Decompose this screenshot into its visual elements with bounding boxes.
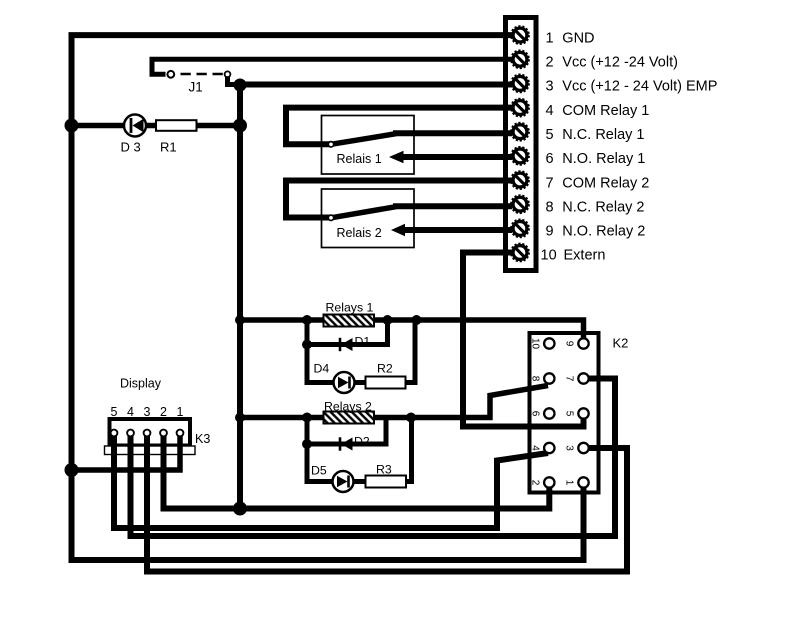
wire D3 R1 row [72, 123, 241, 129]
relay coil 2 (Relays 2) [324, 412, 375, 424]
node coil 2 rail left [235, 413, 245, 423]
wire D5 R3 branch [307, 418, 412, 482]
terminal screw 5 [511, 123, 529, 141]
svg-text:Relais 1: Relais 1 [337, 152, 382, 166]
svg-text:3: 3 [564, 445, 575, 451]
jumper J1 left circle [167, 71, 174, 78]
relay 2 switch blade [331, 207, 396, 218]
svg-text:K2: K2 [613, 336, 629, 351]
wire diode D1 branch [307, 317, 388, 345]
diode D3 [124, 115, 146, 137]
display connector K3 base strip [105, 446, 196, 455]
svg-text:D4: D4 [314, 362, 330, 376]
display pin 4 circle [127, 430, 134, 437]
svg-text:5: 5 [546, 127, 554, 143]
svg-text:9: 9 [564, 341, 575, 347]
display connector K3 body [110, 419, 191, 446]
svg-text:Relais 2: Relais 2 [337, 226, 382, 240]
wire terminal 2 to jumper J1 left [152, 59, 512, 74]
svg-text:R1: R1 [160, 140, 177, 155]
K2 pin 6 [544, 408, 554, 418]
svg-text:1: 1 [546, 30, 554, 46]
wire terminal 6 to relay 1 N.O. arrow [401, 154, 512, 160]
K2 pin numbers [530, 338, 575, 486]
wire K2 pin 4 to display pin 5 [114, 435, 548, 528]
relay coil 1 (Relays 1) [324, 315, 375, 327]
svg-text:GND: GND [562, 30, 594, 46]
terminal labels [541, 30, 718, 263]
wire K2 pin 7 to display pin 4 [131, 379, 616, 537]
wire terminal 10 Extern to K2 pin 5 [463, 253, 584, 427]
resistor R2 [366, 377, 406, 389]
svg-text:R3: R3 [376, 463, 392, 477]
terminal screw 7 [511, 171, 529, 189]
K2 pin 2 [544, 477, 554, 487]
svg-text:R2: R2 [377, 362, 393, 376]
svg-text:N.O. Relay 2: N.O. Relay 2 [562, 224, 645, 240]
svg-text:1: 1 [177, 405, 184, 419]
svg-text:8: 8 [546, 199, 554, 215]
relay 2 pivot [328, 215, 333, 220]
svg-text:4: 4 [530, 445, 541, 451]
display pin numbers [111, 405, 184, 419]
wire J1 right stub [228, 75, 239, 85]
wire display pin 1 to GND rail [72, 435, 181, 470]
svg-text:2: 2 [160, 405, 167, 419]
terminal screw 1 [511, 26, 529, 44]
connector K2 body [530, 333, 599, 493]
terminal screw 3 [511, 75, 529, 93]
K2 pin 9 [578, 338, 588, 348]
resistor R3 [366, 476, 407, 488]
display pin 5 circle [111, 430, 118, 437]
resistor R1 [156, 120, 197, 131]
diode D1 [340, 338, 353, 351]
LED D5 [333, 471, 354, 492]
node D1 / D4 branch [302, 340, 312, 350]
svg-text:4: 4 [546, 103, 554, 119]
svg-text:4: 4 [127, 405, 134, 419]
wire relay coil 1 rail to K2 pin 9 [240, 320, 584, 340]
display pin 2 circle [160, 430, 167, 437]
wire D4 R2 branch [307, 318, 415, 383]
node coil 1 / D1 branch top [302, 315, 312, 325]
node R3 riser top [406, 413, 416, 423]
node coil 1 rail left [235, 315, 245, 325]
svg-text:7: 7 [546, 175, 554, 191]
relay 1 switch blade [331, 134, 396, 145]
svg-text:D 3: D 3 [121, 140, 141, 155]
relay 2 box [322, 189, 415, 248]
node left rail / D3 row [65, 119, 79, 133]
K2 pin 10 [544, 338, 554, 348]
wire diode D2 branch [307, 418, 386, 445]
arrow relay 1 N.O. [389, 151, 404, 163]
K2 pin 3 [578, 443, 588, 453]
wire GND net: terminal 1 to left rail, bottom rail to K2 pin 1 [72, 35, 584, 560]
svg-text:COM Relay 2: COM Relay 2 [562, 175, 649, 191]
wire terminal 4 to relay 1 common [286, 108, 512, 145]
jumper J1 right circle [225, 71, 231, 77]
svg-text:2: 2 [530, 480, 541, 486]
terminal screw 10 [511, 244, 529, 262]
svg-text:J1: J1 [189, 80, 203, 95]
svg-text:Display: Display [120, 377, 162, 391]
svg-text:9: 9 [546, 224, 554, 240]
K2 pin 5 [578, 408, 588, 418]
LED D4 [334, 372, 355, 393]
node left rail / display pin 1 [65, 463, 79, 477]
terminal screw 2 [511, 50, 529, 68]
svg-text:10: 10 [541, 248, 557, 264]
svg-text:COM Relay 1: COM Relay 1 [562, 103, 649, 119]
arrow relay 2 N.O. [391, 224, 405, 236]
svg-text:D2: D2 [354, 435, 370, 449]
wire terminal 7 to relay 2 common [286, 181, 512, 218]
node center rail / D3 row [233, 119, 247, 133]
display pin circles [111, 430, 184, 437]
svg-text:5: 5 [564, 411, 575, 417]
svg-text:K3: K3 [195, 432, 210, 446]
wire terminal 8 to relay 2 N.C. contact [393, 203, 512, 209]
svg-text:N.C. Relay 1: N.C. Relay 1 [562, 127, 644, 143]
svg-text:3: 3 [144, 405, 151, 419]
terminal screw 9 [511, 220, 529, 238]
svg-text:5: 5 [111, 405, 118, 419]
node center rail bottom [233, 502, 247, 516]
wire terminal 5 to relay 1 N.C. contact [393, 130, 512, 136]
wire terminal 3 + center rail [240, 85, 512, 509]
svg-text:1: 1 [564, 480, 575, 486]
svg-text:7: 7 [564, 376, 575, 382]
diode D2 [340, 437, 353, 450]
K2 pin 1 [578, 477, 588, 487]
svg-text:Extern: Extern [564, 248, 606, 264]
svg-text:10: 10 [530, 338, 541, 350]
node J1 / terminal 3 [234, 79, 247, 92]
wire K2 pin 3 to display pin 3 [147, 435, 627, 572]
node coil 2 / D2 branch top [302, 413, 312, 423]
terminal block body [506, 18, 537, 271]
terminal screws 1-10 [511, 26, 529, 261]
svg-text:Relays 2: Relays 2 [324, 400, 372, 414]
svg-text:Relays 1: Relays 1 [326, 301, 374, 315]
K2 pin 7 [578, 373, 588, 383]
terminal screw 8 [511, 195, 529, 213]
display pin 1 circle [177, 430, 184, 437]
svg-text:6: 6 [530, 411, 541, 417]
wire relay coil 2 rail to K2 pin 8 [240, 386, 548, 418]
svg-text:8: 8 [530, 376, 541, 382]
wire terminal 9 to relay 2 N.O. arrow [403, 227, 512, 233]
K2 pin 8 [544, 373, 554, 383]
svg-text:2: 2 [546, 55, 554, 71]
node R2 riser top [412, 315, 422, 325]
svg-text:Vcc (+12 - 24 Volt) EMP: Vcc (+12 - 24 Volt) EMP [562, 79, 717, 95]
terminal screw 4 [511, 99, 529, 117]
svg-text:D1: D1 [355, 335, 371, 349]
svg-text:N.C. Relay 2: N.C. Relay 2 [562, 199, 644, 215]
jumper J1 dashed link [181, 73, 225, 75]
terminal screw 6 [511, 147, 529, 165]
K2 pin 4 [544, 443, 554, 453]
relay 1 box [322, 116, 415, 175]
svg-text:6: 6 [546, 151, 554, 167]
relay 1 pivot [328, 142, 333, 147]
svg-text:Vcc (+12 -24 Volt): Vcc (+12 -24 Volt) [562, 55, 678, 71]
display pin 3 circle [144, 430, 151, 437]
node D2 / D5 branch [302, 439, 312, 449]
wire K2 pin 2 to display pin 2 [164, 435, 550, 509]
node D1 riser top [383, 315, 393, 325]
K2 pin circles [544, 338, 589, 487]
svg-text:D5: D5 [311, 464, 327, 478]
svg-text:3: 3 [546, 79, 554, 95]
svg-text:N.O. Relay 1: N.O. Relay 1 [562, 151, 645, 167]
